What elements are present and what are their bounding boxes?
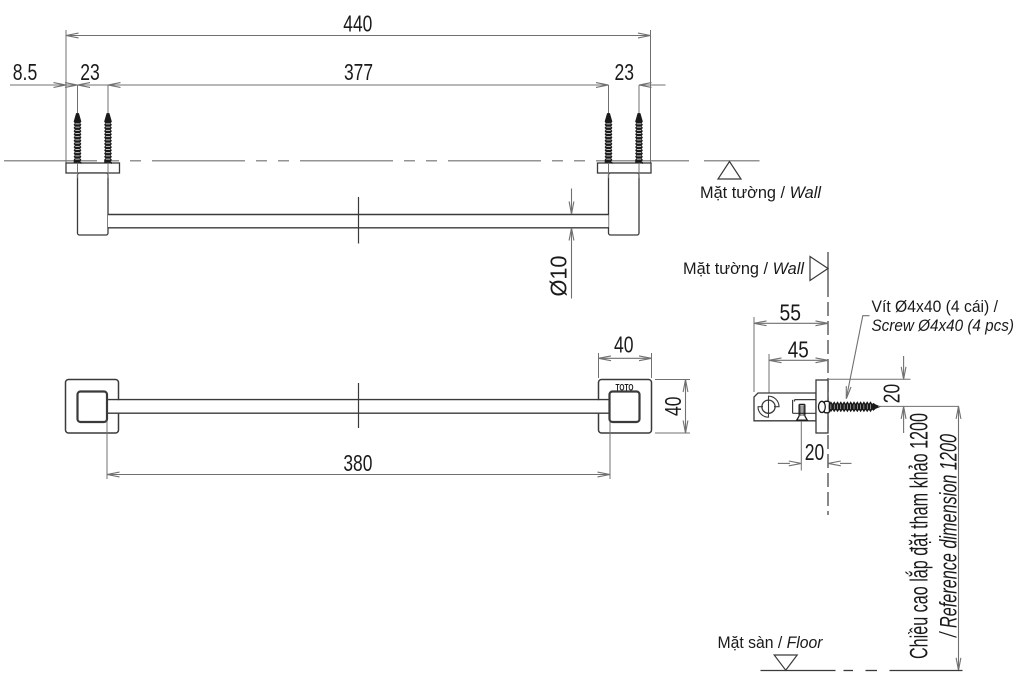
svg-text:TOTO: TOTO (616, 382, 634, 392)
svg-text:23: 23 (80, 59, 100, 85)
svg-text:Mặt tường / Wall: Mặt tường / Wall (700, 183, 822, 202)
svg-text:Mặt sàn / Floor: Mặt sàn / Floor (718, 633, 824, 652)
svg-text:377: 377 (344, 59, 373, 85)
svg-text:Mặt tường / Wall: Mặt tường / Wall (683, 259, 805, 278)
svg-text:23: 23 (615, 59, 635, 85)
svg-text:45: 45 (788, 337, 809, 363)
svg-text:380: 380 (343, 450, 372, 476)
svg-text:55: 55 (780, 300, 802, 326)
svg-text:40: 40 (614, 332, 634, 358)
svg-text:40: 40 (660, 396, 686, 416)
svg-text:20: 20 (805, 439, 825, 465)
svg-text:440: 440 (343, 11, 372, 37)
svg-text:20: 20 (879, 384, 905, 404)
svg-text:/ Reference dimension 1200: / Reference dimension 1200 (935, 434, 962, 639)
svg-text:Ø10: Ø10 (546, 256, 572, 297)
svg-text:Chiều cao lắp đặt tham khảo 12: Chiều cao lắp đặt tham khảo 1200 (905, 413, 934, 659)
svg-text:Vít Ø4x40 (4 cái) /: Vít Ø4x40 (4 cái) / (872, 297, 999, 316)
svg-text:Screw Ø4x40 (4 pcs): Screw Ø4x40 (4 pcs) (872, 316, 1015, 335)
svg-text:8.5: 8.5 (13, 59, 38, 85)
